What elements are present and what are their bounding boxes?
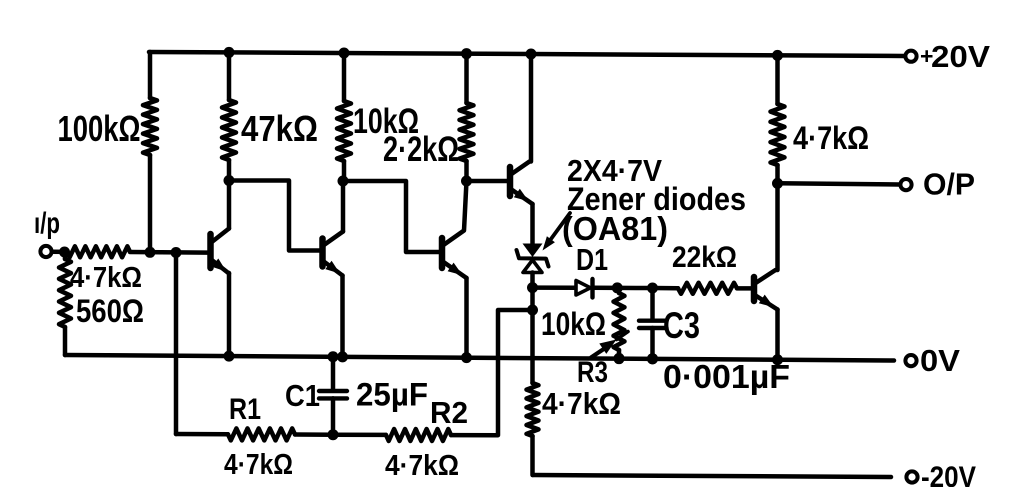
svg-text:100kΩ: 100kΩ: [58, 108, 141, 149]
svg-text:10kΩ: 10kΩ: [541, 306, 606, 342]
svg-text:R1: R1: [229, 393, 261, 426]
svg-text:C3: C3: [663, 305, 700, 346]
svg-text:R2: R2: [430, 395, 468, 430]
svg-text:C1: C1: [285, 378, 320, 413]
svg-text:4·7kΩ: 4·7kΩ: [224, 449, 293, 481]
svg-text:47kΩ: 47kΩ: [241, 108, 318, 149]
svg-text:ı/p: ı/p: [34, 207, 60, 240]
svg-text:-20V: -20V: [921, 461, 976, 487]
svg-text:0·001µF: 0·001µF: [663, 358, 790, 395]
svg-text:4·7kΩ: 4·7kΩ: [70, 262, 142, 294]
svg-text:4·7kΩ: 4·7kΩ: [793, 120, 869, 156]
svg-text:22kΩ: 22kΩ: [672, 241, 737, 274]
svg-text:20V: 20V: [931, 39, 990, 74]
svg-text:25µF: 25µF: [356, 377, 428, 413]
svg-text:560Ω: 560Ω: [76, 293, 144, 329]
svg-text:D1: D1: [576, 242, 608, 277]
svg-text:4·7kΩ: 4·7kΩ: [542, 386, 621, 421]
svg-text:O/P: O/P: [923, 167, 975, 202]
svg-text:0V: 0V: [920, 343, 960, 378]
svg-text:2·2kΩ: 2·2kΩ: [383, 130, 459, 169]
svg-text:R3: R3: [577, 356, 608, 389]
svg-text:4·7kΩ: 4·7kΩ: [385, 450, 459, 482]
